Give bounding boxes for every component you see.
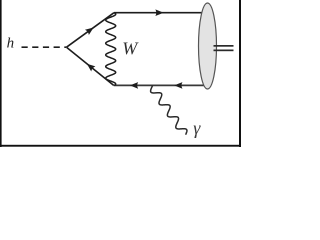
frame left border <box>0 0 2 147</box>
arrow on top horizontal <box>155 9 163 16</box>
fermion line vertex to top corner <box>67 13 115 48</box>
fermion line vertex to bottom corner <box>67 47 114 85</box>
bottom horizontal fermion line <box>114 84 204 86</box>
arrow on upper diagonal <box>85 28 94 36</box>
svg-text:γ: γ <box>193 118 201 138</box>
double line lower <box>214 50 234 52</box>
arrow 2 on bottom horizontal <box>174 82 182 89</box>
arrow on lower diagonal pointing to vertex <box>87 64 96 72</box>
photon wavy line <box>151 85 187 134</box>
hadronic blob ellipse <box>199 3 217 89</box>
top horizontal fermion line <box>114 12 203 14</box>
W boson wavy line <box>106 13 116 86</box>
frame right border <box>239 0 241 147</box>
frame bottom border <box>0 145 241 147</box>
svg-text:h: h <box>7 36 15 52</box>
double line upper <box>214 45 234 47</box>
arrow 1 on bottom horizontal <box>130 82 138 89</box>
svg-text:W: W <box>122 39 139 59</box>
higgs dashed line <box>22 46 67 48</box>
